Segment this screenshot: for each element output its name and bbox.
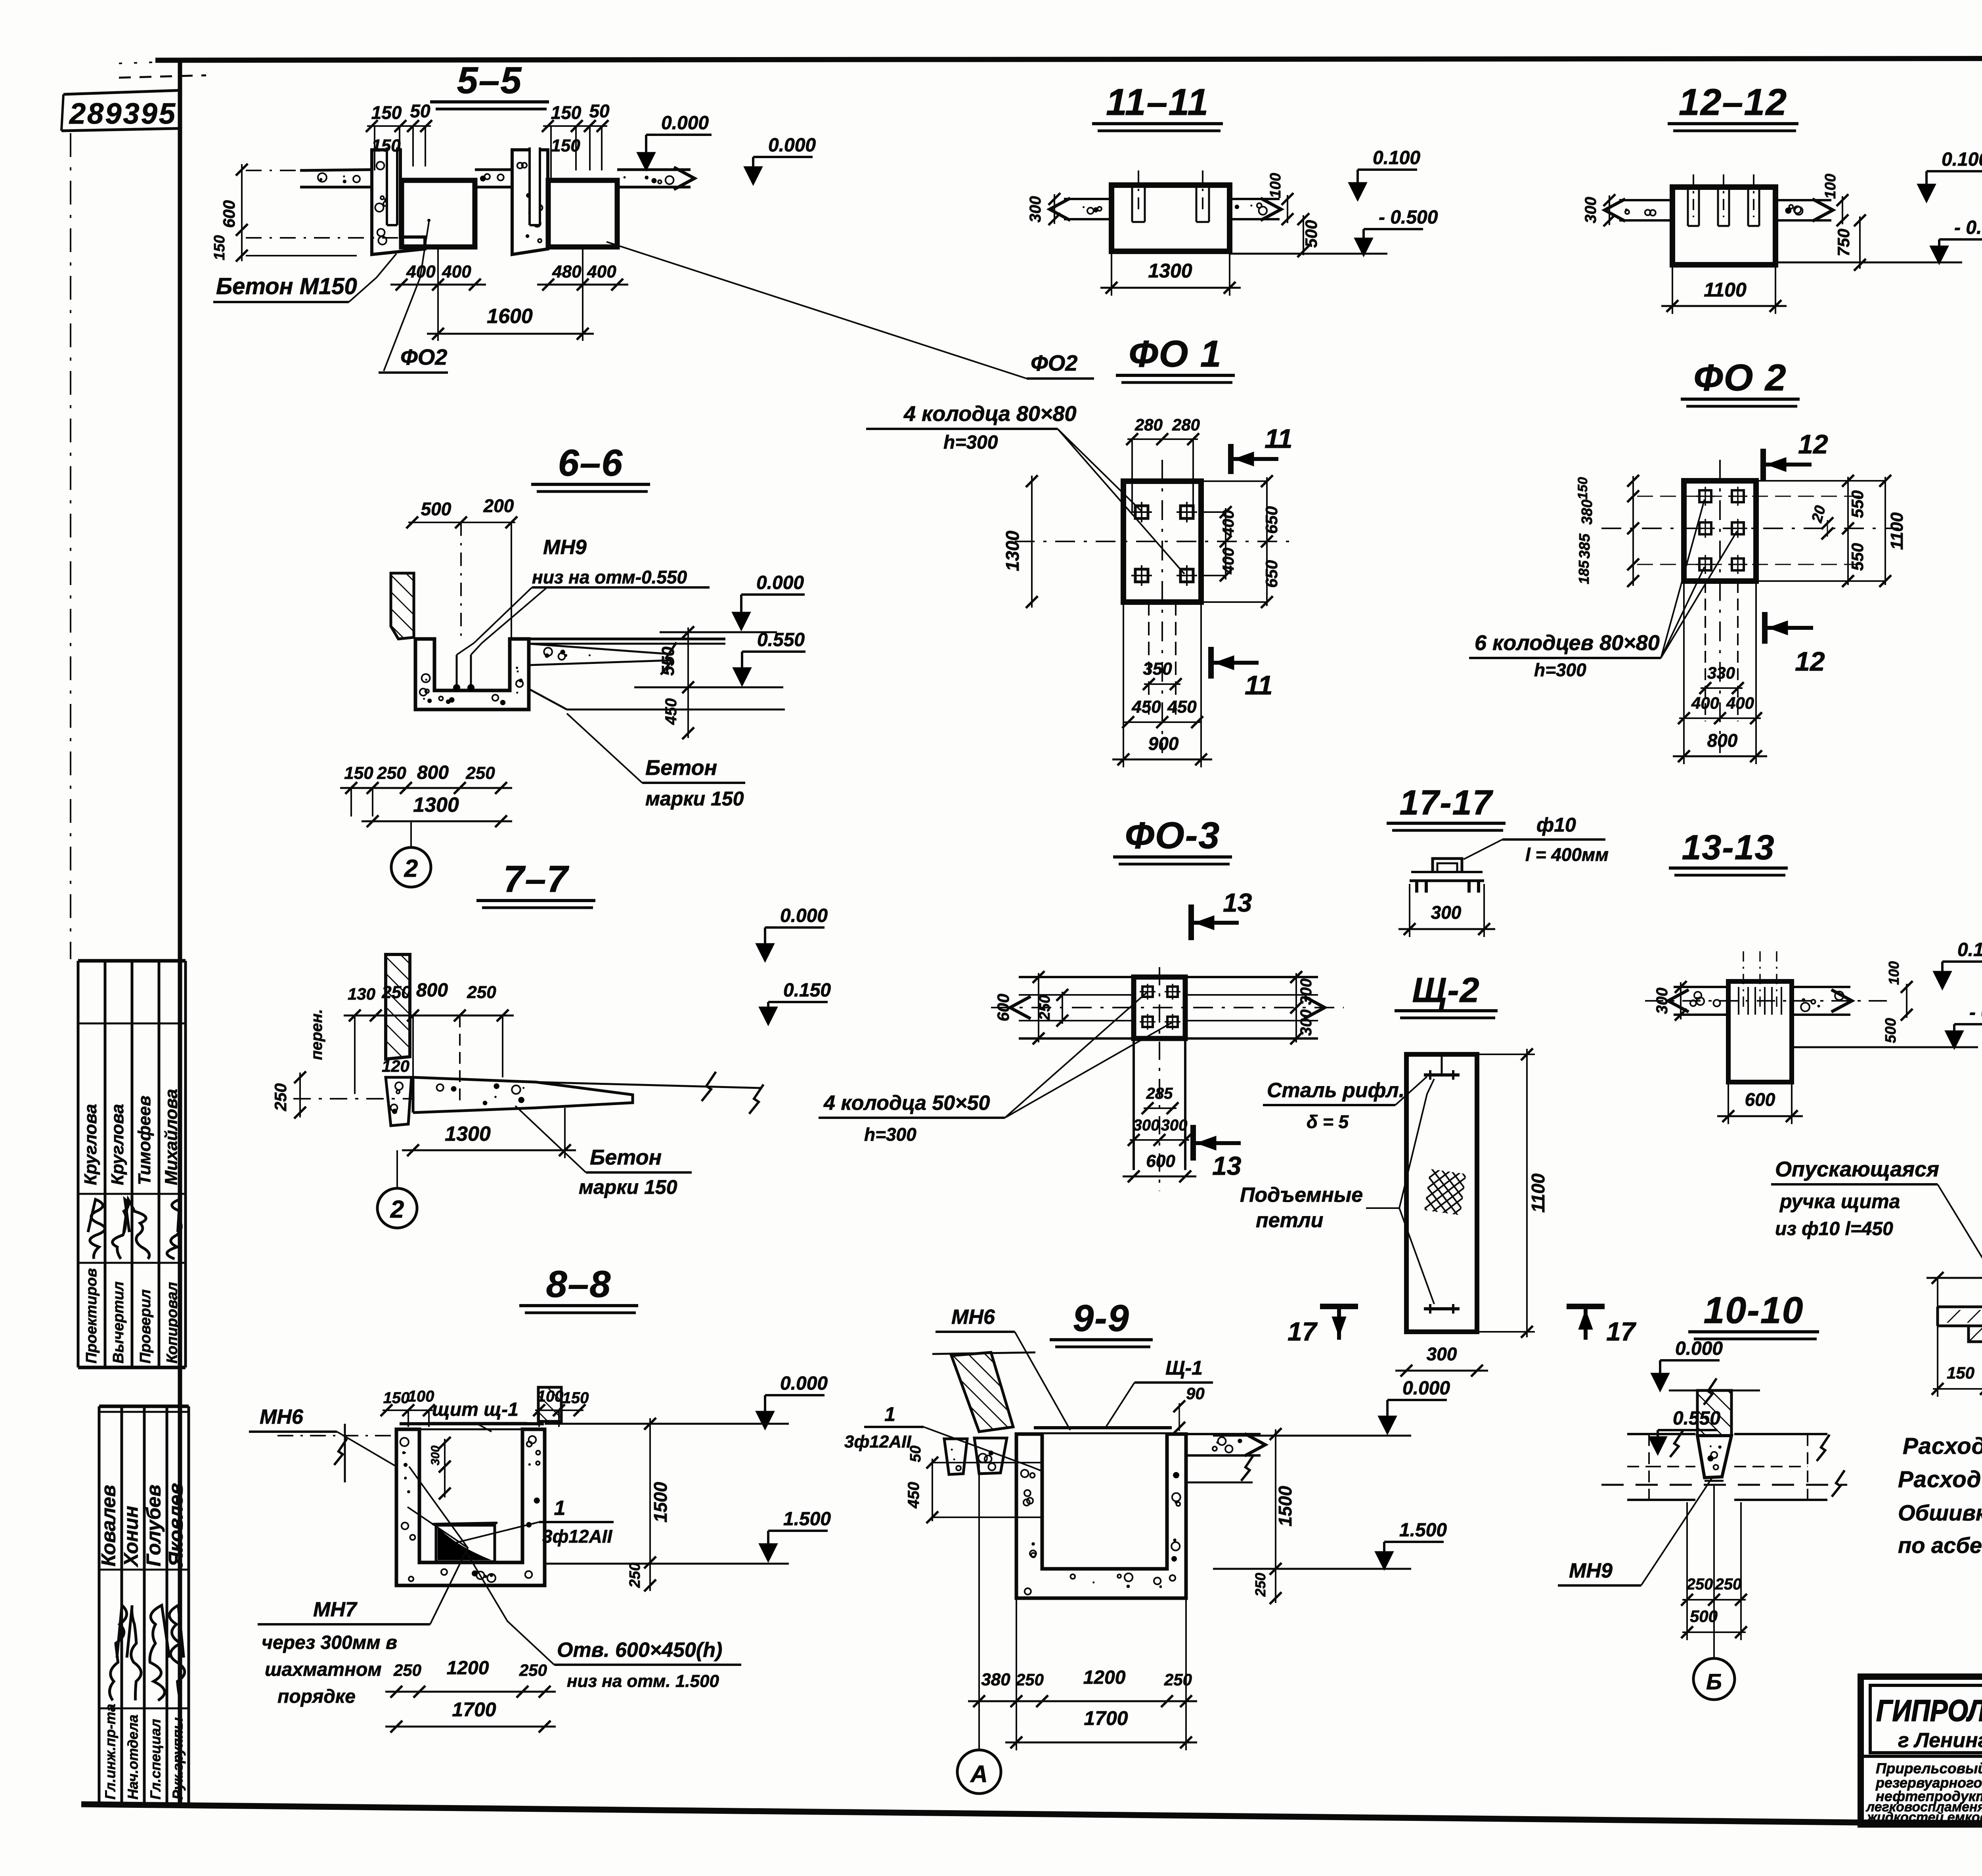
svg-text:17-17: 17-17	[1399, 783, 1493, 822]
7-7 floor slab	[413, 1077, 633, 1113]
13-13 right dims 100 500	[1906, 984, 1907, 1018]
7-7 axis circle 2	[396, 1150, 398, 1187]
archive stamp 289395	[63, 90, 179, 94]
svg-text:250: 250	[1037, 995, 1053, 1020]
svg-text:130: 130	[348, 985, 375, 1003]
10-10 left slab dashed	[1627, 1433, 1695, 1435]
9-9 masonry wall hatched	[951, 1352, 1013, 1432]
svg-text:Михайлова: Михайлова	[162, 1089, 181, 1185]
FO1 centerlines	[1161, 460, 1163, 753]
table2 signature squiggle	[109, 1605, 126, 1700]
11-11 level 0.000 left	[744, 166, 763, 185]
svg-text:150: 150	[551, 102, 582, 123]
8-8 pit concrete walls	[396, 1429, 545, 1585]
FO1 left dim 1300	[1031, 476, 1033, 608]
11-11 right dims 100 500	[1287, 195, 1288, 223]
Shch-2 top lifting loop	[1424, 1073, 1460, 1077]
svg-text:Бетон: Бетон	[590, 1145, 662, 1169]
svg-text:через 300мм в: через 300мм в	[262, 1632, 397, 1653]
Shch-2 section mark 17 left	[1320, 1304, 1358, 1309]
8-8 level 0.000	[756, 1411, 775, 1430]
table2 signature squiggle	[169, 1605, 185, 1700]
svg-text:450: 450	[1167, 697, 1197, 717]
svg-text:400: 400	[442, 262, 471, 281]
10-10 dotted pier trapezoid	[1697, 1436, 1731, 1478]
9-9 pit concrete walls	[1016, 1434, 1186, 1598]
svg-text:1300: 1300	[413, 794, 459, 817]
svg-text:h=300: h=300	[943, 432, 998, 453]
FO-3 left dims 600 250	[1038, 973, 1039, 1042]
12-12 left slab strip	[1619, 199, 1672, 201]
17-17 lifting loop bracket	[1410, 880, 1484, 882]
svg-text:4 колодца 50×50: 4 колодца 50×50	[823, 1092, 990, 1115]
svg-text:550: 550	[1848, 490, 1867, 518]
svg-text:400: 400	[1691, 694, 1719, 712]
svg-text:0.000: 0.000	[756, 572, 804, 593]
svg-text:порядке: порядке	[277, 1686, 356, 1707]
svg-text:ручка щита: ручка щита	[1779, 1190, 1900, 1212]
svg-text:Яковлев: Яковлев	[165, 1483, 187, 1567]
svg-text:МН9: МН9	[543, 536, 587, 559]
svg-text:650: 650	[1262, 560, 1281, 588]
svg-text:1200: 1200	[1083, 1667, 1126, 1688]
table1 signature squiggle	[124, 1199, 149, 1259]
svg-text:Нач.отдела: Нач.отдела	[125, 1715, 141, 1800]
FO-3 vertical band below	[1133, 1038, 1135, 1170]
svg-text:250: 250	[1715, 1576, 1742, 1593]
6-6 left wall hatched	[391, 573, 414, 639]
svg-text:9-9: 9-9	[1073, 1297, 1129, 1339]
8-8 opening dark triangle	[436, 1525, 495, 1562]
svg-text:Щ-1: Щ-1	[1165, 1357, 1203, 1379]
svg-text:А: А	[970, 1761, 987, 1787]
svg-text:150: 150	[551, 136, 580, 155]
svg-text:1700: 1700	[1084, 1707, 1128, 1729]
13-13 level 0.100 right	[1933, 971, 1952, 990]
svg-text:330: 330	[1707, 664, 1735, 682]
table1 signature squiggle	[167, 1199, 181, 1259]
Shch-2 section mark 17 right	[1567, 1304, 1605, 1309]
svg-text:385: 385	[1576, 533, 1593, 558]
15-15 plank assembly	[1938, 1306, 1982, 1308]
svg-text:Щ-2: Щ-2	[1412, 970, 1480, 1010]
svg-text:7–7: 7–7	[503, 858, 570, 900]
svg-text:ф10: ф10	[1536, 814, 1576, 836]
svg-text:550: 550	[1848, 543, 1867, 571]
svg-text:150: 150	[371, 102, 402, 123]
7-7 level 0.150	[759, 1007, 778, 1026]
table1 signature squiggle	[113, 1199, 130, 1259]
svg-text:17: 17	[1288, 1317, 1318, 1346]
svg-text:150: 150	[383, 1389, 410, 1407]
13-13 right slab strip	[1792, 986, 1850, 988]
svg-text:1300: 1300	[1002, 530, 1023, 571]
svg-text:Проверил: Проверил	[137, 1289, 154, 1363]
svg-text:550: 550	[658, 646, 678, 676]
sheet left border	[178, 60, 182, 1804]
svg-text:Круглова: Круглова	[108, 1104, 127, 1185]
6-6 level 0.000 right	[732, 612, 751, 631]
svg-text:ФО-3: ФО-3	[1125, 815, 1221, 857]
svg-text:380: 380	[981, 1670, 1010, 1689]
8-8 left break line	[344, 1424, 346, 1482]
svg-text:3ф12АII: 3ф12АII	[542, 1526, 612, 1547]
8-8 level 1.500	[759, 1543, 778, 1562]
Shch-2 dim 1100 right	[1526, 1049, 1528, 1337]
svg-text:0.550: 0.550	[1673, 1408, 1720, 1429]
title block divider under org	[1861, 1755, 1982, 1758]
table2 signature squiggle	[150, 1605, 169, 1700]
13-13 left vert dim 300	[1680, 982, 1682, 1019]
svg-text:450: 450	[905, 1482, 922, 1509]
5-5 middle floor slab strip	[475, 168, 512, 171]
svg-text:300: 300	[1427, 1344, 1457, 1364]
svg-text:280: 280	[1134, 415, 1163, 434]
FO1 section mark 11 top	[1228, 444, 1234, 474]
Shch-2 bottom lifting loop	[1424, 1307, 1460, 1310]
svg-text:1500: 1500	[1275, 1486, 1295, 1526]
9-9 lid	[1034, 1426, 1172, 1429]
svg-text:Бетон М150: Бетон М150	[216, 273, 357, 299]
svg-text:150: 150	[211, 235, 228, 260]
sheet top border	[155, 58, 1982, 60]
svg-text:низ на отм-0.550: низ на отм-0.550	[532, 567, 687, 587]
5-5 middle concrete channel	[512, 150, 548, 254]
svg-text:250: 250	[1016, 1670, 1044, 1689]
10-10 hatched wall	[1697, 1390, 1731, 1436]
9-9 level 1.500	[1375, 1551, 1394, 1570]
7-7 dim 250 left	[299, 1073, 301, 1117]
Shch-2 panel rectangle	[1406, 1054, 1477, 1332]
svg-text:650: 650	[1262, 506, 1281, 534]
FO2 section mark 12 bottom	[1762, 612, 1768, 644]
FO2 centerlines	[1719, 460, 1721, 753]
svg-text:Круглова: Круглова	[81, 1104, 100, 1185]
svg-text:Расход кровельной стали на оди: Расход кровельной стали на один щит Щ-1 …	[1898, 1467, 1982, 1492]
FO1 right dims 400 400 650 650	[1225, 508, 1226, 579]
7-7 pier with dots	[386, 1077, 411, 1126]
svg-text:0.000: 0.000	[1402, 1378, 1450, 1399]
svg-text:МН6: МН6	[951, 1306, 995, 1329]
11-11 left vert dim 300	[1054, 194, 1055, 224]
svg-text:250: 250	[519, 1661, 547, 1679]
svg-text:450: 450	[662, 698, 680, 725]
FO-3 wells 4	[1142, 987, 1153, 997]
svg-text:250: 250	[627, 1562, 643, 1588]
svg-text:8–8: 8–8	[546, 1263, 612, 1305]
svg-text:ФО2: ФО2	[1031, 350, 1077, 375]
svg-text:6–6: 6–6	[558, 442, 624, 484]
6-6 axis circle 2	[410, 821, 412, 848]
svg-text:800: 800	[417, 762, 449, 783]
svg-text:289395: 289395	[69, 97, 177, 130]
svg-text:Копировал: Копировал	[164, 1282, 181, 1363]
7-7 level 0.000	[756, 943, 775, 962]
5-5 left foundation block	[402, 180, 475, 247]
svg-text:1100: 1100	[1887, 512, 1907, 550]
svg-text:Подъемные: Подъемные	[1240, 1184, 1363, 1207]
svg-text:50: 50	[589, 101, 610, 121]
9-9 right floor slab	[1186, 1433, 1261, 1435]
FO-3 right dims 300 300	[1295, 973, 1297, 1042]
svg-text:0.100: 0.100	[1373, 147, 1420, 168]
table1 signature squiggle	[88, 1199, 105, 1259]
svg-text:500: 500	[1302, 220, 1320, 248]
9-9 left dims 50 450	[932, 1459, 933, 1521]
FO-3 centerline horizontal	[991, 1007, 1344, 1008]
5-5 level mark 0.000	[637, 152, 656, 171]
svg-text:11: 11	[1265, 424, 1293, 454]
svg-text:Опускающаяся: Опускающаяся	[1775, 1157, 1939, 1181]
svg-text:250: 250	[465, 763, 495, 783]
svg-text:1300: 1300	[1148, 260, 1192, 282]
12-12 level -0.750 right	[1930, 246, 1949, 265]
svg-text:Гл.специал: Гл.специал	[147, 1719, 164, 1800]
svg-text:1100: 1100	[1528, 1173, 1548, 1212]
svg-text:6 колодцев 80×80: 6 колодцев 80×80	[1475, 631, 1660, 655]
svg-text:из ф10 l=450: из ф10 l=450	[1775, 1218, 1893, 1239]
svg-text:по асбесту с двух сторон.: по асбесту с двух сторон.	[1898, 1533, 1982, 1558]
svg-text:285: 285	[1146, 1085, 1173, 1102]
svg-text:0.100: 0.100	[1957, 939, 1982, 960]
svg-text:250: 250	[377, 763, 406, 783]
13-13 level -0.500 right	[1945, 1031, 1964, 1050]
svg-text:13-13: 13-13	[1682, 828, 1775, 867]
svg-text:150: 150	[371, 136, 401, 155]
12-12 left vert dim 300	[1609, 195, 1610, 225]
svg-text:Тимофеев: Тимофеев	[135, 1096, 154, 1185]
FO2 section mark 12 top	[1760, 449, 1766, 480]
svg-text:400: 400	[1220, 510, 1237, 537]
6-6 vertical dim 550 450	[687, 627, 689, 738]
svg-text:- 0.500: - 0.500	[1969, 1002, 1982, 1023]
svg-text:600: 600	[994, 994, 1012, 1021]
svg-text:Б: Б	[1706, 1669, 1722, 1694]
svg-text:1700: 1700	[452, 1698, 496, 1721]
svg-text:300: 300	[429, 1446, 442, 1465]
svg-text:марки 150: марки 150	[579, 1176, 677, 1198]
FO-3 plan square	[1134, 977, 1185, 1038]
svg-text:900: 900	[1148, 733, 1179, 754]
FO-3 section mark 13 bottom	[1190, 1125, 1196, 1161]
svg-text:жидкостей емкостью 2000 м: жидкостей емкостью 2000 м	[1866, 1810, 1982, 1825]
svg-text:12: 12	[1795, 646, 1825, 677]
12-12 anchor marks	[1687, 187, 1689, 226]
svg-text:2: 2	[390, 1196, 404, 1223]
svg-text:0.150: 0.150	[783, 980, 831, 1001]
svg-text:300: 300	[1297, 1010, 1315, 1036]
10-10 dashed centerline	[1601, 1484, 1847, 1486]
title block outer frame	[1861, 1677, 1982, 1824]
5-5 left floor slab strip	[300, 170, 372, 170]
9-9 axis circle A	[978, 1464, 980, 1749]
svg-text:13: 13	[1223, 888, 1252, 917]
svg-text:380: 380	[1579, 499, 1596, 524]
table2 signature squiggle	[127, 1605, 141, 1700]
svg-text:300: 300	[1582, 197, 1599, 224]
9-9 level 0.000	[1378, 1416, 1397, 1435]
left margin dash-dot line	[70, 133, 71, 959]
svg-text:400: 400	[1726, 694, 1754, 712]
13-13 left slab strip	[1674, 986, 1728, 988]
svg-text:Расход древесины на один щит: Расход древесины на один щит Щ-1 – 0.045…	[1903, 1433, 1982, 1459]
svg-text:Голубев: Голубев	[143, 1484, 165, 1566]
svg-text:350: 350	[1143, 659, 1172, 679]
svg-text:ФО 2: ФО 2	[1693, 357, 1787, 399]
svg-text:0.000: 0.000	[661, 113, 709, 134]
svg-text:1200: 1200	[447, 1658, 489, 1679]
11-11 level 0.100 right	[1348, 182, 1367, 201]
svg-text:150: 150	[1947, 1363, 1974, 1382]
svg-text:200: 200	[483, 495, 514, 516]
7-7 brick wall hatched	[386, 954, 410, 1059]
svg-text:300: 300	[1027, 196, 1044, 223]
svg-text:- 0.750: - 0.750	[1954, 217, 1982, 238]
Shch-2 hatch patch	[1424, 1169, 1466, 1215]
svg-text:300: 300	[1161, 1117, 1188, 1134]
7-7 centerline	[293, 1098, 412, 1100]
5-5 ground dash-dot lines left	[246, 170, 300, 171]
svg-text:450: 450	[1131, 697, 1161, 717]
svg-text:низ на отм. 1.500: низ на отм. 1.500	[567, 1671, 719, 1691]
svg-text:Гл.инж.пр-та: Гл.инж.пр-та	[102, 1704, 119, 1800]
svg-text:500: 500	[421, 499, 451, 519]
12-12 right dims 100 750	[1842, 196, 1843, 224]
5-5 right floor slab strip	[617, 168, 691, 171]
svg-text:5–5: 5–5	[457, 59, 522, 101]
svg-text:400: 400	[587, 262, 616, 281]
svg-text:4 колодца 80×80: 4 колодца 80×80	[903, 402, 1077, 426]
title block org name GIPROLESTRANS	[1870, 1685, 1982, 1753]
9-9 dotted piers	[944, 1439, 967, 1474]
svg-text:Ковалев: Ковалев	[98, 1485, 120, 1566]
svg-text:1600: 1600	[487, 305, 533, 328]
svg-text:12: 12	[1798, 429, 1828, 459]
svg-text:0.550: 0.550	[757, 629, 805, 650]
svg-text:1: 1	[884, 1403, 895, 1425]
svg-text:250: 250	[467, 983, 496, 1002]
signature table upper	[78, 959, 186, 963]
svg-text:h=300: h=300	[864, 1124, 916, 1145]
5-5 left concrete channel	[372, 150, 425, 254]
svg-text:Бетон: Бетон	[645, 756, 717, 780]
11-11 foundation block	[1112, 185, 1230, 251]
5-5 right foundation block	[548, 180, 617, 247]
svg-text:ГИПРОЛЕСТРАНС: ГИПРОЛЕСТРАНС	[1876, 1694, 1982, 1728]
svg-text:Обшивку Щ-1 кровельной стал: Обшивку Щ-1 кровельной сталью выполнить …	[1898, 1500, 1982, 1525]
svg-text:250: 250	[393, 1661, 421, 1679]
svg-text:l = 400мм: l = 400мм	[1525, 844, 1609, 865]
svg-text:100: 100	[408, 1388, 434, 1405]
5-5 vertical dim 600 150	[241, 164, 243, 261]
8-8 right wall hatched above	[538, 1387, 561, 1421]
svg-text:0.100: 0.100	[1942, 149, 1982, 170]
svg-text:1100: 1100	[1704, 279, 1747, 301]
svg-text:петли: петли	[1256, 1209, 1323, 1232]
svg-text:500: 500	[1883, 1018, 1899, 1043]
svg-text:Прирельсовый склад: Прирельсовый склад	[1876, 1760, 1982, 1777]
10-10 level 0.000	[1651, 1373, 1670, 1392]
svg-text:Проектиров: Проектиров	[83, 1268, 100, 1363]
svg-text:Хонин: Хонин	[120, 1506, 142, 1568]
svg-text:δ = 5: δ = 5	[1307, 1111, 1349, 1132]
12-12 foundation block	[1672, 187, 1775, 265]
svg-text:250: 250	[271, 1083, 290, 1111]
svg-text:1300: 1300	[445, 1123, 491, 1145]
8-8 lid double line	[400, 1422, 544, 1425]
svg-text:0.000: 0.000	[1675, 1338, 1723, 1359]
svg-text:1500: 1500	[650, 1482, 671, 1522]
svg-text:ФО 1: ФО 1	[1129, 333, 1222, 375]
8-8 right vertical dim 1500 250	[649, 1418, 651, 1591]
9-9 right vertical dims 1500 250	[1275, 1429, 1276, 1603]
10-10 axis circle B	[1713, 1485, 1715, 1658]
FO1 section mark 11 bottom	[1208, 647, 1214, 679]
svg-text:12–12: 12–12	[1679, 81, 1787, 123]
svg-text:600: 600	[1146, 1151, 1175, 1171]
svg-text:11–11: 11–11	[1106, 81, 1209, 123]
6-6 level 0.550 right	[733, 667, 752, 687]
11-11 level -0.500 right	[1354, 238, 1373, 257]
12-12 right slab strip	[1775, 199, 1831, 201]
svg-text:Вычертил: Вычертил	[110, 1281, 127, 1363]
13-13 block	[1728, 981, 1792, 1082]
6-6 ground lines right	[567, 709, 785, 711]
svg-text:ФО2: ФО2	[400, 344, 447, 369]
12-12 level 0.100 right	[1917, 184, 1936, 203]
svg-text:50: 50	[410, 101, 430, 121]
FO2 plan rectangle	[1684, 481, 1756, 581]
svg-text:250: 250	[1164, 1670, 1192, 1689]
FO2 wells 6	[1699, 490, 1711, 502]
svg-text:3ф12АII: 3ф12АII	[844, 1432, 911, 1451]
svg-text:перен.: перен.	[308, 1009, 325, 1060]
svg-text:0.000: 0.000	[768, 135, 816, 156]
svg-text:280: 280	[1172, 415, 1200, 434]
svg-text:10-10: 10-10	[1704, 1289, 1804, 1331]
svg-text:- 0.500: - 0.500	[1379, 207, 1438, 228]
FO-3 section mark 13 top	[1188, 905, 1194, 940]
svg-text:300: 300	[1133, 1117, 1160, 1134]
svg-text:185: 185	[1576, 560, 1592, 584]
svg-text:0.000: 0.000	[780, 1373, 828, 1394]
FO1 plan rectangle	[1123, 481, 1201, 602]
svg-text:480: 480	[552, 262, 582, 281]
svg-text:400: 400	[1220, 548, 1237, 575]
svg-text:МН6: МН6	[260, 1406, 304, 1429]
svg-text:100: 100	[1886, 961, 1902, 985]
svg-text:г Ленинград 1975г: г Ленинград 1975г	[1898, 1729, 1982, 1752]
signature table lower	[99, 1405, 189, 1408]
svg-text:МН9: МН9	[1569, 1559, 1613, 1582]
svg-text:300: 300	[1297, 979, 1315, 1005]
6-6 right floor slab	[529, 638, 725, 641]
13-13 centerline	[1645, 1000, 1887, 1002]
11-11 anchor marks in block	[1131, 185, 1133, 222]
FO1 wells	[1135, 506, 1148, 518]
svg-text:250: 250	[1686, 1576, 1713, 1593]
svg-text:МН7: МН7	[313, 1598, 358, 1621]
svg-text:800: 800	[1707, 730, 1738, 751]
svg-text:марки 150: марки 150	[645, 788, 744, 810]
svg-text:150: 150	[1575, 477, 1590, 500]
svg-text:1: 1	[554, 1497, 566, 1520]
11-11 right slab strip	[1230, 198, 1280, 200]
6-6 U channel concrete	[415, 639, 529, 709]
10-10 right slab dashed	[1734, 1433, 1827, 1435]
svg-text:0.000: 0.000	[780, 905, 828, 926]
svg-text:13: 13	[1212, 1151, 1241, 1180]
